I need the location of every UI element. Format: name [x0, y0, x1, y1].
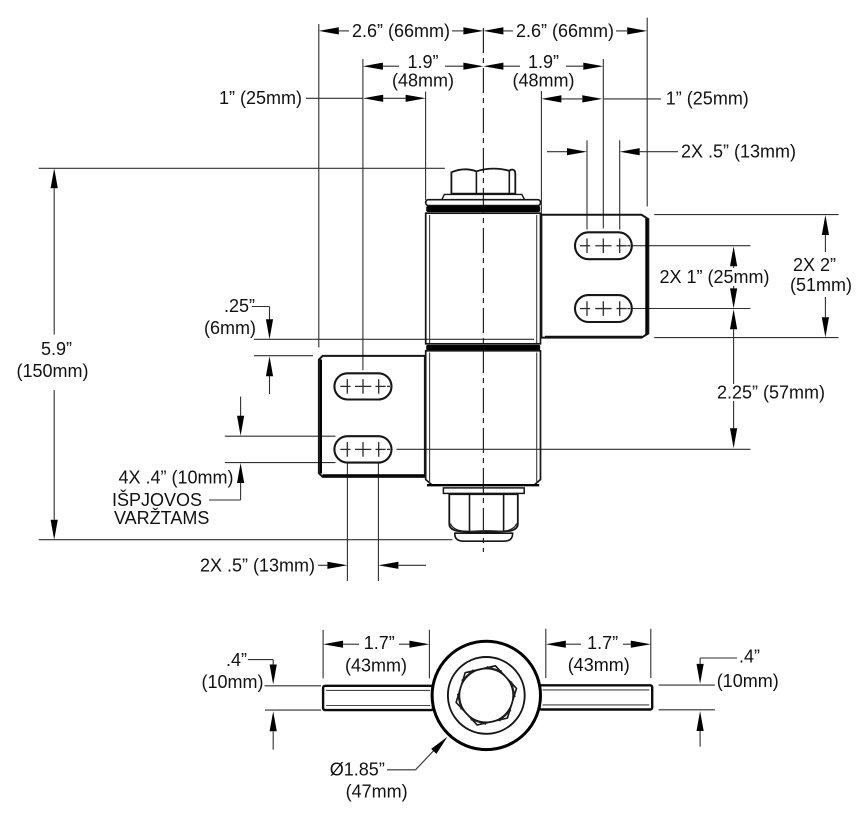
svg-text:(10mm): (10mm): [202, 672, 264, 692]
svg-text:2X .5” (13mm): 2X .5” (13mm): [200, 555, 315, 575]
svg-text:(150mm): (150mm): [16, 361, 88, 381]
svg-text:(43mm): (43mm): [568, 655, 630, 675]
svg-text:.4”: .4”: [226, 650, 247, 670]
svg-text:(10mm): (10mm): [717, 671, 779, 691]
svg-text:(47mm): (47mm): [346, 781, 408, 801]
svg-text:2X 1” (25mm): 2X 1” (25mm): [659, 267, 769, 287]
svg-text:1” (25mm): 1” (25mm): [666, 89, 749, 109]
svg-text:1.9”: 1.9”: [528, 52, 559, 72]
svg-text:1.7”: 1.7”: [364, 633, 395, 653]
svg-text:4X .4” (10mm): 4X .4” (10mm): [118, 468, 233, 488]
svg-text:(51mm): (51mm): [790, 275, 852, 295]
svg-text:2X .5” (13mm): 2X .5” (13mm): [681, 142, 796, 162]
svg-text:2.6” (66mm): 2.6” (66mm): [516, 21, 614, 41]
svg-text:1.7”: 1.7”: [587, 633, 618, 653]
svg-text:VARŽTAMS: VARŽTAMS: [114, 508, 209, 528]
svg-text:2.25” (57mm): 2.25” (57mm): [717, 383, 825, 403]
svg-text:5.9”: 5.9”: [41, 339, 72, 359]
svg-text:.25”: .25”: [224, 296, 255, 316]
svg-text:1.9”: 1.9”: [407, 52, 438, 72]
svg-text:(43mm): (43mm): [345, 655, 407, 675]
svg-text:(6mm): (6mm): [204, 318, 256, 338]
svg-text:2X 2”: 2X 2”: [793, 255, 836, 275]
svg-text:(48mm): (48mm): [392, 70, 454, 90]
svg-text:2.6” (66mm): 2.6” (66mm): [352, 21, 450, 41]
svg-text:(48mm): (48mm): [513, 70, 575, 90]
svg-text:1” (25mm): 1” (25mm): [219, 88, 302, 108]
svg-text:IŠPJOVOS: IŠPJOVOS: [112, 489, 202, 510]
svg-text:.4”: .4”: [739, 647, 760, 667]
svg-text:Ø1.85”: Ø1.85”: [330, 759, 385, 779]
